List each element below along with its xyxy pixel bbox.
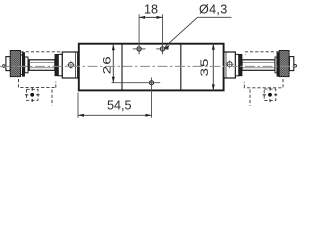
svg-text:35: 35	[198, 57, 210, 76]
svg-text:26: 26	[101, 55, 113, 74]
svg-text:Ø4,3: Ø4,3	[199, 3, 228, 17]
svg-text:18: 18	[144, 3, 158, 17]
svg-text:54,5: 54,5	[107, 99, 132, 113]
